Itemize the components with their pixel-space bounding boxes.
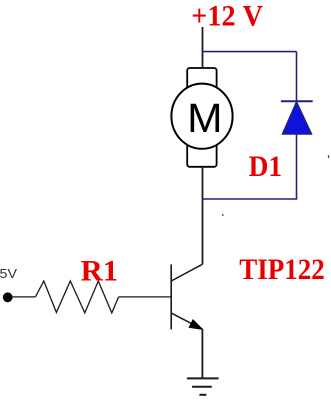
wire from +12V supply down to motor top terminal: [202, 27, 204, 69]
svg-text:5V: 5V: [0, 267, 18, 281]
diode D1 triangle (anode, pointing up): [283, 102, 312, 134]
ground symbol bar 2: [192, 386, 212, 388]
blue wire: diode upper lead (vertical): [296, 52, 298, 101]
diode D1 cathode bar: [281, 100, 313, 102]
blue wire: diode lower lead (vertical): [296, 134, 298, 199]
wire resistor to transistor base: [119, 296, 171, 298]
wire input dot to resistor: [11, 296, 35, 298]
resistor R1 zigzag: [35, 281, 118, 313]
ground symbol bar 1: [187, 377, 219, 379]
stray mark artifact right of D1: [328, 155, 329, 158]
transistor Q1 base bar: [170, 264, 172, 329]
wire emitter down to ground: [201, 329, 203, 378]
svg-text:R1: R1: [81, 254, 119, 287]
blue wire: diode anode return to collector node (horizontal): [203, 198, 298, 200]
motor M1 circle: [171, 84, 232, 149]
blue wire: top of motor branch to diode cathode (horizontal): [203, 51, 297, 53]
transistor Q1 emitter arrowhead: [189, 320, 202, 329]
input terminal dot: [3, 292, 13, 302]
motor M1 body rectangle: [187, 68, 216, 167]
svg-text:M: M: [187, 95, 222, 141]
ground symbol bar 3: [199, 394, 206, 396]
transistor Q1 collector diagonal: [172, 264, 203, 281]
svg-text:D1: D1: [249, 150, 283, 183]
stray speck artifact below collector node: [222, 214, 224, 216]
transistor Q1 emitter diagonal: [172, 313, 203, 329]
wire motor bottom terminal to collector node: [202, 167, 204, 265]
svg-text:TIP122: TIP122: [239, 253, 324, 286]
